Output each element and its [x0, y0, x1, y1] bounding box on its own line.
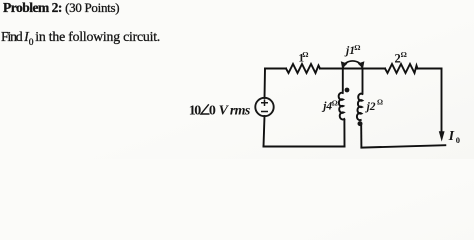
wire node A to node B (under coupling arc): [343, 68, 363, 70]
arrowhead right of coupling arc: [358, 61, 365, 68]
resistor R2 2ohm: [385, 64, 418, 73]
svg-text:Ω: Ω: [401, 50, 407, 59]
svg-text:Ω: Ω: [332, 98, 338, 107]
coupling arc j1ohm: [343, 61, 362, 67]
inductor L2 j2ohm bottom lead: [360, 126, 362, 148]
svg-text:10: 10: [189, 103, 202, 118]
wire left vertical below source: [264, 116, 265, 147]
wire top-left segment: [265, 68, 286, 70]
svg-text:j4: j4: [321, 101, 332, 113]
voltage source plus sign: [261, 99, 268, 106]
inductor L1 j4ohm coil: [339, 93, 345, 120]
svg-text:0: 0: [209, 103, 216, 118]
wire bottom-right horizontal: [361, 145, 445, 147]
svg-text:j2: j2: [365, 101, 376, 113]
inductor L2 j2ohm top lead: [362, 69, 364, 93]
resistor R1 1ohm: [286, 64, 320, 73]
inductor L2 j2ohm coil: [357, 94, 363, 120]
wire bottom-left horizontal: [264, 146, 345, 148]
svg-text:V rms: V rms: [219, 104, 251, 119]
dot polarity L2: [358, 121, 363, 126]
svg-text:I: I: [448, 129, 455, 144]
wire node B to R2: [363, 68, 386, 70]
voltage source minus sign: [261, 111, 268, 113]
heading Problem 2: (30 Points): [3, 1, 119, 15]
svg-text:Ω: Ω: [302, 50, 308, 59]
inductor L1 j4ohm bottom lead: [343, 120, 345, 147]
wire between R1 and node A: [320, 68, 343, 70]
voltage source VS circle: [255, 98, 273, 116]
arrowhead left of coupling arc: [341, 61, 348, 68]
wire R2 to top-right corner: [418, 68, 442, 70]
svg-text:Ω: Ω: [377, 98, 383, 107]
instruction Find I0 in the following circuit.: [1, 30, 160, 49]
wire right vertical I0 branch: [441, 69, 443, 134]
svg-text:0: 0: [456, 135, 460, 145]
inductor L1 j4ohm top lead: [342, 69, 344, 92]
svg-text:Ω: Ω: [354, 43, 360, 52]
arrowhead of I0 current: [439, 131, 445, 141]
label source angle symbol: [201, 104, 210, 114]
dot polarity L1: [345, 88, 350, 93]
wire left vertical above source: [264, 69, 267, 99]
